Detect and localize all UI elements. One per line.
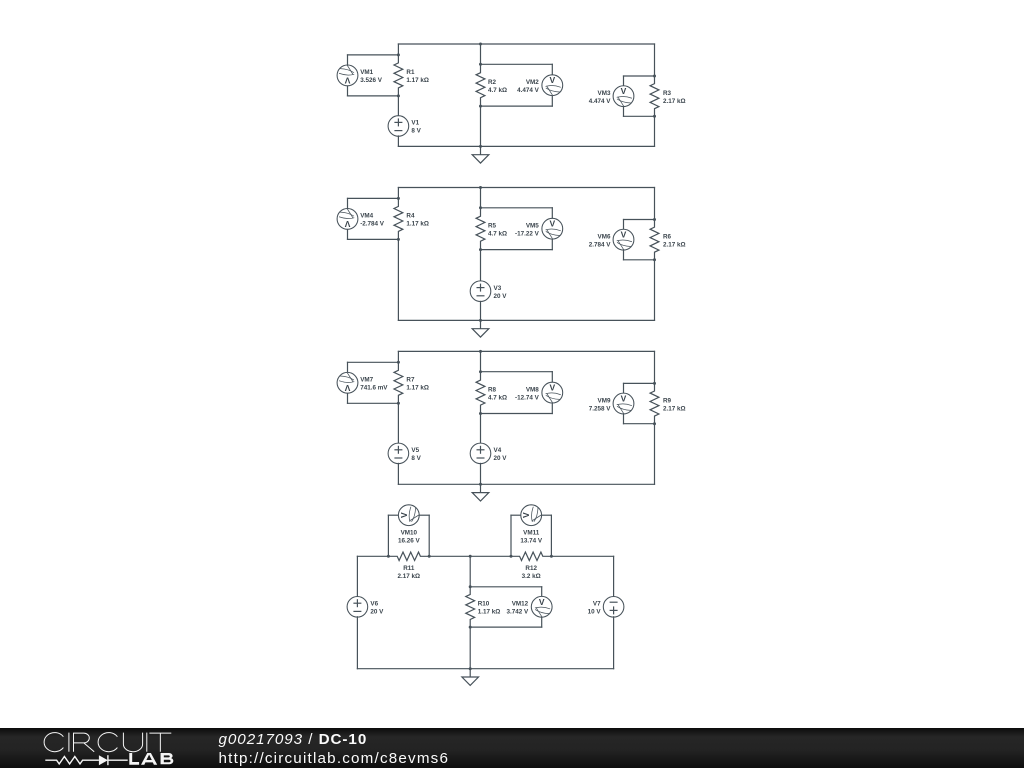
junction node [479,412,482,415]
svg-text:V7: V7 [593,601,601,608]
label VM6 [589,233,612,248]
wire [623,414,625,424]
wire [347,198,349,209]
wire c4 rail seg4 [551,555,613,557]
label VM1 [360,69,383,84]
wire c4 right column lower [613,617,615,669]
label VM5 [515,222,540,237]
svg-text:R10: R10 [478,601,490,608]
wire [623,250,625,260]
wire [347,393,349,404]
wire c4 rail seg3 [470,555,511,557]
wire c2 middle column upper [480,188,482,208]
wire c3 V4 bottom lead [480,463,482,484]
wire c2 right column lower [654,260,656,321]
svg-text:R6: R6 [663,233,672,240]
junction node [469,555,472,558]
label R6 [663,233,686,248]
voltmeter VM3 [613,86,634,107]
svg-text:R1: R1 [406,69,415,76]
junction node [479,186,482,189]
wire c1 left column upper [397,44,399,55]
svg-text:V1: V1 [411,120,419,127]
svg-text:8 V: 8 V [411,128,421,135]
wire bottom rail c4 [357,668,613,670]
wire [624,259,655,261]
label VM3 [589,90,612,105]
wire c3 meter bottom [348,402,399,404]
wire VM11 left [510,515,512,556]
wire c1 meter bottom [348,95,399,97]
junction node [469,626,472,629]
svg-text:3.526 V: 3.526 V [360,77,383,84]
resistor R8 [476,372,485,414]
wire c4 rail seg2 [429,555,470,557]
svg-text:VM3: VM3 [598,90,611,97]
voltage source V3 [470,281,491,302]
wire [481,371,553,373]
wire [347,229,349,240]
wire c4 left column upper [356,556,358,597]
label V3 [494,285,508,300]
svg-text:3.2 kΩ: 3.2 kΩ [522,573,541,580]
wire c1 middle column lower [480,106,482,147]
wire [624,382,655,384]
svg-text:VM11: VM11 [523,529,540,536]
label R12 [522,565,541,580]
svg-text:13.74 V: 13.74 V [520,537,543,544]
svg-text:VM1: VM1 [360,69,373,76]
junction node [479,63,482,66]
junction node [653,218,656,221]
resistor R1 [394,55,403,96]
voltmeter VM6 [613,229,634,250]
junction node [479,350,482,353]
label V5 [411,447,421,462]
wire [481,249,553,251]
svg-text:-2.784 V: -2.784 V [360,221,385,228]
wire [541,587,543,597]
svg-text:-12.74 V: -12.74 V [515,394,540,401]
svg-text:VM10: VM10 [401,529,418,536]
svg-text:V: V [621,230,627,240]
wire [551,64,553,75]
svg-text:R5: R5 [488,222,497,229]
voltage source V7 [603,597,624,618]
wire [388,514,398,516]
svg-text:V6: V6 [370,601,378,608]
junction node [397,402,400,405]
svg-text:V: V [621,394,627,404]
junction node [428,555,431,558]
resistor R12 [511,552,551,560]
svg-text:VM6: VM6 [598,233,611,240]
svg-text:4.474 V: 4.474 V [589,98,612,105]
label R2 [488,79,507,94]
svg-text:2.17 kΩ: 2.17 kΩ [663,98,686,105]
wire c1 meter top [348,54,399,56]
svg-text:2.784 V: 2.784 V [589,241,612,248]
label VM9 [589,397,612,412]
wire c2 V3 top lead [480,250,482,282]
svg-text:VM5: VM5 [526,222,539,229]
svg-text:7.258 V: 7.258 V [589,405,612,412]
svg-text:4.7 kΩ: 4.7 kΩ [488,230,507,237]
svg-text:V: V [549,75,555,85]
svg-text:V: V [549,383,555,393]
junction node [653,382,656,385]
wire c4 left column lower [356,617,358,669]
wire c1 right column upper [654,44,656,76]
label V1 [411,120,421,135]
logo resistor-diode glyph [45,754,129,766]
wire [623,220,625,230]
wire [624,75,655,77]
svg-text:1.17 kΩ: 1.17 kΩ [478,609,501,616]
svg-text:4.7 kΩ: 4.7 kΩ [488,394,507,401]
wire c3 right column upper [654,351,656,383]
voltage source V1 [388,116,409,137]
label V7 [588,601,602,616]
junction node [479,206,482,209]
footer title text [219,731,368,748]
wire VM12 bottom [470,626,542,628]
junction node [510,555,513,558]
svg-text:V: V [344,219,350,229]
voltmeter VM4 [337,208,358,229]
svg-text:3.742 V: 3.742 V [506,609,529,616]
junction node [653,115,656,118]
junction node [479,105,482,108]
wire c3 V4 top lead [480,414,482,444]
wire [419,514,429,516]
ground c4 [462,669,479,686]
resistor R7 [394,362,403,403]
svg-text:V: V [399,512,409,518]
resistor R9 [650,383,659,423]
junction node [479,483,482,486]
wire c1 middle column upper [480,44,482,64]
wire top rail c2 [398,187,654,189]
wire VM11 right [550,515,552,556]
resistor R6 [650,220,659,260]
label R7 [406,377,429,392]
wire [551,403,553,414]
wire c3 left column upper [397,351,399,362]
junction node [397,238,400,241]
wire [624,219,655,221]
voltage source V6 [347,597,368,618]
svg-text:V: V [521,512,531,518]
wire c1 V1 bottom lead [397,136,399,146]
label VM11 [520,529,543,544]
svg-text:R11: R11 [403,565,415,572]
wire c2 V3 bottom lead [480,301,482,320]
wire [511,514,521,516]
svg-text:R4: R4 [406,213,415,220]
wire c2 meter top [348,197,399,199]
label VM8 [515,386,540,401]
svg-text:-17.22 V: -17.22 V [515,230,540,237]
resistor R3 [650,76,659,116]
voltmeter VM5 [542,218,563,239]
svg-text:2.17 kΩ: 2.17 kΩ [663,405,686,412]
svg-text:V5: V5 [411,447,419,454]
junction node [479,248,482,251]
junction node [387,555,390,558]
ground c3 [472,484,489,501]
wire top rail c3 [398,350,654,352]
svg-text:4.7 kΩ: 4.7 kΩ [488,87,507,94]
wire [481,105,553,107]
svg-text:V4: V4 [494,447,502,454]
label R8 [488,386,507,401]
svg-text:VM2: VM2 [526,79,539,86]
junction node [653,258,656,261]
resistor R11 [388,552,429,560]
svg-text:20 V: 20 V [370,609,384,616]
wire [481,413,553,415]
wire [623,106,625,116]
wire bottom rail c2 [398,319,654,321]
svg-text:R3: R3 [663,90,672,97]
label R5 [488,222,507,237]
svg-text:4.474 V: 4.474 V [517,87,540,94]
label R10 [478,601,501,616]
wire VM12 top [470,586,542,588]
label VM4 [360,213,385,228]
wire c2 left column lower [397,239,399,320]
wire c3 middle column upper [480,351,482,371]
wire [347,362,349,373]
junction node [469,585,472,588]
label V6 [370,601,384,616]
svg-text:V: V [621,86,627,96]
wire c1 right column lower [654,116,656,146]
ground c2 [472,320,489,337]
voltmeter VM8 [542,382,563,403]
footer url text [219,750,450,767]
label VM12 [506,601,529,616]
junction node [479,43,482,46]
resistor R2 [476,64,485,106]
voltmeter VM10 [398,505,419,526]
junction node [397,197,400,200]
junction node [653,422,656,425]
svg-text:1.17 kΩ: 1.17 kΩ [406,77,429,84]
svg-text:20 V: 20 V [494,293,508,300]
svg-text:V: V [344,383,350,393]
svg-text:20 V: 20 V [494,455,508,462]
voltmeter VM1 [337,65,358,86]
voltmeter VM11 [521,505,542,526]
wire [541,514,551,516]
wire bottom rail c1 [398,145,654,147]
label R4 [406,213,429,228]
wire [551,239,553,250]
svg-text:10 V: 10 V [588,609,602,616]
junction node [479,319,482,322]
label VM2 [517,79,540,94]
svg-text:VM9: VM9 [598,397,611,404]
wire [623,383,625,393]
wire c4 right column upper [613,556,615,597]
svg-text:VM7: VM7 [360,377,373,384]
label R3 [663,90,686,105]
svg-text:16.26 V: 16.26 V [398,537,421,544]
wire [623,76,625,86]
svg-text:2.17 kΩ: 2.17 kΩ [663,241,686,248]
wire [481,207,553,209]
CircuitLab wordmark [43,732,173,753]
voltage source V5 [388,443,409,464]
wire c3 V5 bottom lead [397,463,399,484]
wire c4 rail seg1 [357,555,388,557]
label R9 [663,397,686,412]
junction node [479,370,482,373]
resistor R5 [476,208,485,250]
junction node [469,667,472,670]
svg-text:1.17 kΩ: 1.17 kΩ [406,385,429,392]
wire c2 meter bottom [348,238,399,240]
svg-text:R2: R2 [488,79,497,86]
svg-text:741.6 mV: 741.6 mV [360,385,388,392]
wire [481,63,553,65]
wire [624,423,655,425]
wire [347,55,349,66]
resistor R10 [466,587,475,627]
junction node [397,94,400,97]
label VM10 [398,529,421,544]
wire [624,115,655,117]
wire c1 V1 top lead [397,96,399,116]
svg-text:VM12: VM12 [512,601,529,608]
wire VM10 left [387,515,389,556]
svg-text:1.17 kΩ: 1.17 kΩ [406,221,429,228]
svg-text:VM4: VM4 [360,213,373,220]
junction node [653,75,656,78]
wire [551,208,553,219]
wire c3 right column lower [654,424,656,485]
resistor R4 [394,198,403,239]
label V4 [494,447,508,462]
wire c4 center lower [469,627,471,669]
svg-text:R9: R9 [663,397,672,404]
wire c3 meter top [348,361,399,363]
voltmeter VM2 [542,75,563,96]
svg-text:V3: V3 [494,285,502,292]
svg-text:R7: R7 [406,377,415,384]
voltmeter VM7 [337,372,358,393]
svg-text:R12: R12 [525,565,537,572]
wire VM10 right [428,515,430,556]
junction node [397,361,400,364]
svg-text:V: V [539,597,545,607]
wire top rail c1 [398,43,654,45]
label R11 [398,565,421,580]
voltage source V4 [470,443,491,464]
wire c2 left column upper [397,188,399,199]
wire bottom rail c3 [398,483,654,485]
ground c1 [472,146,489,163]
label VM7 [360,377,388,392]
svg-text:V: V [344,75,350,85]
wire [551,95,553,106]
junction node [550,555,553,558]
footer bar [0,728,1024,768]
svg-text:VM8: VM8 [526,386,539,393]
wire [347,85,349,96]
svg-text:2.17 kΩ: 2.17 kΩ [398,573,421,580]
junction node [397,53,400,56]
svg-text:8 V: 8 V [411,455,421,462]
svg-text:R8: R8 [488,386,497,393]
voltmeter VM9 [613,393,634,414]
wire c4 center upper [469,556,471,587]
wire c2 right column upper [654,188,656,220]
wire [551,372,553,383]
wire c3 V5 top lead [397,403,399,443]
svg-text:V: V [549,219,555,229]
wire [541,617,543,627]
label R1 [406,69,429,84]
junction node [479,145,482,148]
voltmeter VM12 [531,596,552,617]
